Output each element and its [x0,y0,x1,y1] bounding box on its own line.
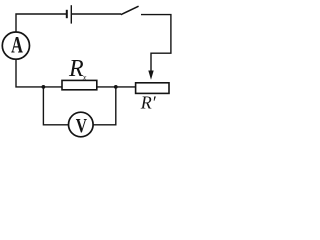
svg-text:V: V [76,115,88,137]
svg-text:R′: R′ [140,93,157,113]
svg-text:x: x [82,73,87,82]
svg-text:A: A [11,32,23,57]
svg-text:R: R [68,56,84,82]
